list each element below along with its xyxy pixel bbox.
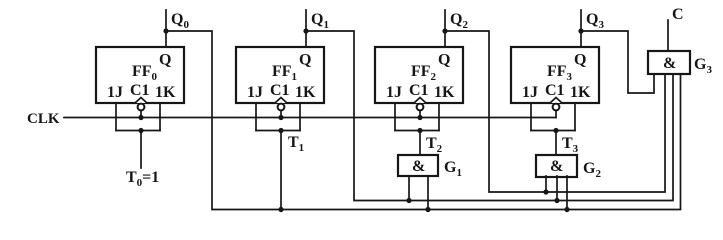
junction FF3 tie bar / T3 bbox=[553, 128, 558, 133]
flip-flop FF3 clock negation bubble bbox=[553, 104, 560, 111]
junction G2 input on Q2 rail bbox=[543, 189, 548, 194]
wire G2 input from Q2 rail bbox=[545, 176, 547, 192]
svg-text:Q0: Q0 bbox=[171, 11, 189, 31]
svg-text:FF3: FF3 bbox=[547, 63, 573, 83]
junction FF0 C1 on CLK bus bbox=[138, 115, 143, 120]
wire net Q3: link to G3 input bbox=[581, 31, 654, 93]
svg-text:G3: G3 bbox=[694, 56, 712, 76]
wire T0 input stub bbox=[140, 131, 142, 169]
svg-text:1J: 1J bbox=[386, 84, 402, 101]
svg-text:Q: Q bbox=[299, 52, 311, 69]
wire G2 input from Q0 rail bbox=[566, 176, 568, 210]
flip-flop FF2 (JK) body bbox=[375, 47, 463, 103]
svg-text:Q: Q bbox=[159, 52, 171, 69]
svg-text:1K: 1K bbox=[155, 84, 176, 101]
svg-text:T1: T1 bbox=[288, 134, 304, 154]
wire T3: G2 output to tie bar bbox=[555, 131, 557, 156]
flip-flop FF2 clock negation bubble bbox=[417, 104, 424, 111]
svg-text:1K: 1K bbox=[434, 84, 455, 101]
wire FF0 C1 pin to CLK bus bbox=[140, 110, 142, 117]
wire FF1 1K pin drop bbox=[299, 103, 301, 131]
wire net Q2: feedback rail to G2, G3 bbox=[445, 31, 665, 192]
wire FF3 J-K tie bar bbox=[531, 130, 575, 132]
junction G1 input on Q1 rail bbox=[406, 198, 411, 203]
wire FF1 1J pin drop bbox=[255, 103, 257, 131]
junction G2 input on Q1 rail bbox=[554, 198, 559, 203]
svg-text:&: & bbox=[663, 55, 676, 72]
svg-text:T2: T2 bbox=[426, 135, 443, 155]
wire FF1 J-K tie bar bbox=[256, 130, 300, 132]
svg-text:1J: 1J bbox=[522, 84, 538, 101]
svg-text:&: & bbox=[412, 158, 425, 175]
junction Q3 output node bbox=[578, 28, 583, 33]
AND gate G1 body bbox=[398, 155, 438, 176]
svg-text:&: & bbox=[550, 158, 563, 175]
wire net Q1: Q1 output stub bbox=[305, 10, 307, 47]
junction Q2 output node bbox=[442, 28, 447, 33]
wire FF3 1K pin drop bbox=[574, 103, 576, 131]
junction FF0 tie bar / T0 bbox=[138, 128, 143, 133]
svg-text:FF1: FF1 bbox=[272, 63, 297, 83]
wire net Q2: Q2 output stub bbox=[444, 10, 446, 47]
wire FF0 1J pin drop bbox=[115, 103, 117, 131]
junction FF2 C1 on CLK bus bbox=[417, 115, 422, 120]
AND gate G2 body bbox=[536, 155, 577, 177]
junction FF1 C1 on CLK bus bbox=[278, 115, 283, 120]
svg-text:Q2: Q2 bbox=[450, 11, 468, 31]
flip-flop FF0 clock negation bubble bbox=[138, 104, 145, 111]
wire FF2 1K pin drop bbox=[438, 103, 440, 131]
flip-flop FF2 dynamic clock edge triangle bbox=[414, 98, 426, 104]
wire G1 input from Q1 rail bbox=[408, 176, 410, 201]
junction Q0 output node bbox=[163, 28, 168, 33]
wire carry output C from G3 bbox=[667, 20, 669, 51]
wire T1: tie bar to Q0 rail bbox=[280, 131, 282, 210]
wire FF1 C1 pin to CLK bus bbox=[280, 110, 282, 117]
wire FF3 1J pin drop bbox=[530, 103, 532, 131]
AND gate G3 body bbox=[648, 51, 690, 74]
wire net Q0: Q0 output stub bbox=[165, 10, 167, 47]
svg-text:Q: Q bbox=[438, 52, 450, 69]
svg-text:C: C bbox=[672, 6, 684, 23]
junction G2 input on Q0 rail bbox=[564, 207, 569, 212]
svg-text:1J: 1J bbox=[107, 84, 123, 101]
svg-text:1K: 1K bbox=[570, 84, 591, 101]
flip-flop FF1 dynamic clock edge triangle bbox=[275, 98, 287, 104]
svg-text:G1: G1 bbox=[444, 159, 462, 179]
svg-text:C1: C1 bbox=[409, 82, 429, 99]
wire net Q3: Q3 output stub bbox=[580, 10, 582, 47]
junction G1 input on Q0 rail bbox=[425, 207, 430, 212]
wire net Q0: feedback rail to G1, G2, G3 and T1 bbox=[166, 31, 681, 210]
wire FF0 J-K tie bar bbox=[116, 130, 160, 132]
flip-flop FF3 dynamic clock edge triangle bbox=[550, 98, 562, 104]
svg-text:1K: 1K bbox=[295, 84, 316, 101]
svg-text:Q3: Q3 bbox=[586, 11, 604, 31]
wire FF2 1J pin drop bbox=[394, 103, 396, 131]
flip-flop FF1 clock negation bubble bbox=[278, 104, 285, 111]
wire net Q1: feedback rail to G1, G2, G3 bbox=[306, 31, 673, 201]
junction Q1 output node bbox=[303, 28, 308, 33]
svg-text:FF0: FF0 bbox=[132, 63, 158, 83]
svg-text:T0=1: T0=1 bbox=[126, 169, 159, 189]
svg-text:T3: T3 bbox=[562, 135, 579, 155]
wire T2: G1 output to tie bar bbox=[419, 131, 421, 156]
flip-flop FF0 dynamic clock edge triangle bbox=[135, 98, 147, 104]
wire G1 input from Q0 rail bbox=[427, 176, 429, 210]
svg-text:CLK: CLK bbox=[27, 111, 60, 127]
wire FF0 1K pin drop bbox=[159, 103, 161, 131]
junction T1 on Q0 rail bbox=[278, 207, 283, 212]
svg-text:G2: G2 bbox=[583, 160, 601, 180]
wire G2 input from Q1 rail bbox=[556, 176, 558, 201]
svg-text:1J: 1J bbox=[247, 84, 263, 101]
svg-text:C1: C1 bbox=[545, 82, 565, 99]
svg-text:C1: C1 bbox=[130, 82, 150, 99]
flip-flop FF3 (JK) body bbox=[511, 47, 599, 103]
junction FF2 tie bar / T2 bbox=[417, 128, 422, 133]
flip-flop FF0 (JK) body bbox=[96, 47, 184, 103]
svg-text:C1: C1 bbox=[270, 82, 290, 99]
svg-text:Q1: Q1 bbox=[311, 11, 329, 31]
svg-text:Q: Q bbox=[574, 52, 586, 69]
flip-flop FF1 (JK) body bbox=[236, 47, 324, 103]
svg-text:FF2: FF2 bbox=[411, 63, 437, 83]
junction FF1 tie bar / T1 bbox=[278, 128, 283, 133]
wire FF2 J-K tie bar bbox=[395, 130, 439, 132]
wire CLK horizontal bus bbox=[64, 117, 556, 119]
wire FF3 C1 pin to CLK bus bbox=[555, 110, 557, 117]
wire FF2 C1 pin to CLK bus bbox=[419, 110, 421, 117]
